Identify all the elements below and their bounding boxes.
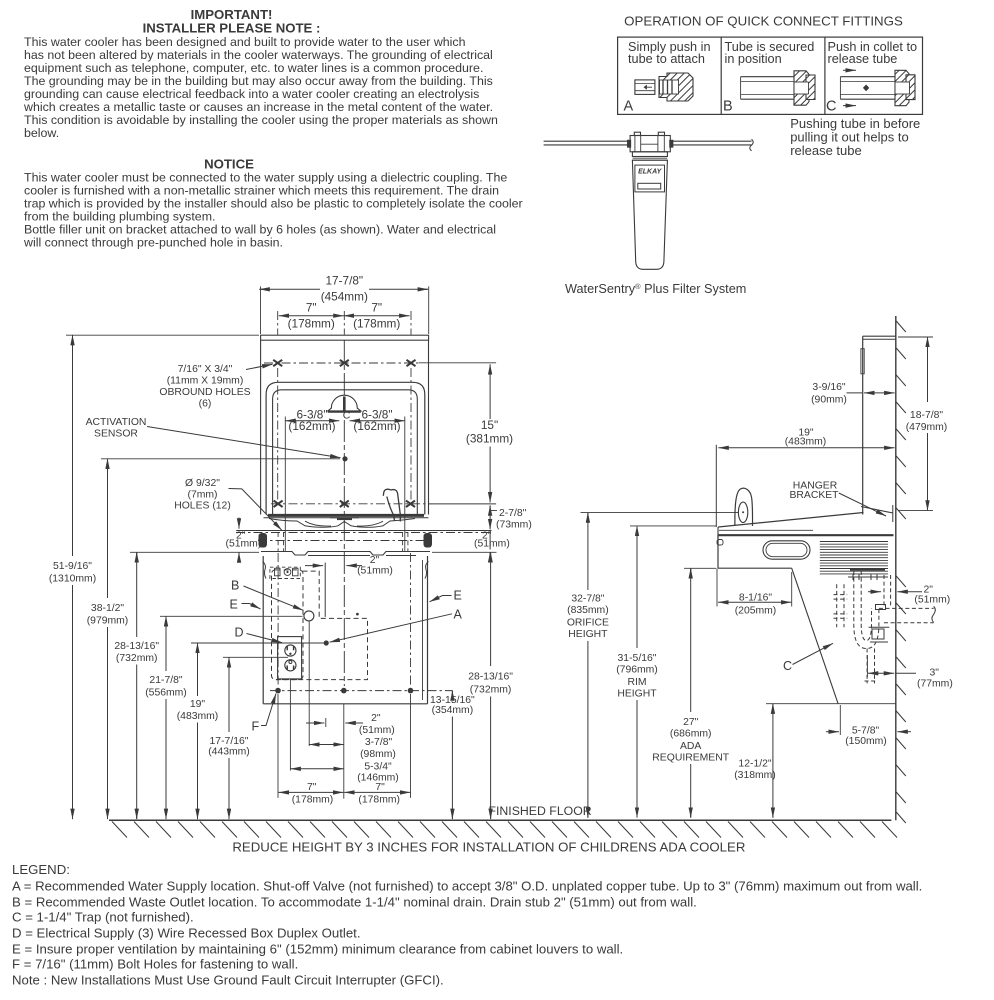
dim 3-7/8 xyxy=(360,737,396,760)
bezel inner rounded xyxy=(273,390,418,515)
dim 32-7/8 orifice height xyxy=(567,512,609,818)
svg-text:trap which is provided by the: trap which is provided by the installer … xyxy=(24,197,523,211)
spout arch xyxy=(328,395,361,412)
svg-text:(686mm): (686mm) xyxy=(670,729,712,740)
receptor dash-dot rows xyxy=(236,532,490,534)
drain stub dashed xyxy=(865,649,878,684)
svg-text:(98mm): (98mm) xyxy=(360,749,396,760)
leader hanger bracket xyxy=(839,493,886,516)
ext rim xyxy=(630,525,716,527)
svg-text:in position: in position xyxy=(725,52,782,66)
ext verticals below cabinet xyxy=(278,622,411,799)
label B xyxy=(231,579,239,593)
dim 28-13/16 left xyxy=(114,552,159,819)
svg-text:NOTICE: NOTICE xyxy=(204,157,254,172)
svg-text:Note : New Installations Must: Note : New Installations Must Use Ground… xyxy=(12,973,444,988)
svg-text:(479mm): (479mm) xyxy=(906,422,948,433)
ext 28-13/16 right xyxy=(432,551,497,553)
outlet zone dashed box xyxy=(272,570,304,680)
fitting illustration C xyxy=(840,70,915,105)
C centerline symbol xyxy=(343,410,351,422)
hole column centerlines xyxy=(278,311,411,500)
dim 19 side xyxy=(785,428,827,448)
panel right edge xyxy=(428,340,430,514)
svg-text:F: F xyxy=(252,720,260,734)
leader C side xyxy=(793,643,834,664)
svg-text:28-13/16": 28-13/16" xyxy=(114,641,159,652)
dim 15 arrows xyxy=(489,364,491,502)
supply collars xyxy=(834,595,848,619)
label F xyxy=(252,720,260,734)
svg-text:has not been altered by materi: has not been altered by materials in the… xyxy=(24,48,493,62)
dash-dot hole row2 line xyxy=(271,503,429,505)
activation sensor text xyxy=(86,417,147,440)
svg-text:38-1/2": 38-1/2" xyxy=(91,603,124,614)
cooler top side xyxy=(718,530,894,535)
svg-text:7": 7" xyxy=(371,300,382,314)
svg-text:E = Insure proper ventilation: E = Insure proper ventilation by maintai… xyxy=(12,942,623,957)
cabinet corner curls xyxy=(263,562,429,579)
leader D xyxy=(247,634,283,643)
leader holes 9/32 xyxy=(229,489,282,531)
svg-text:(178mm): (178mm) xyxy=(288,317,335,331)
svg-text:(77mm): (77mm) xyxy=(917,679,953,690)
filter collar xyxy=(632,152,667,160)
svg-text:(354mm): (354mm) xyxy=(432,705,474,716)
svg-text:(178mm): (178mm) xyxy=(353,317,400,331)
svg-text:SENSOR: SENSOR xyxy=(94,429,138,440)
floor line xyxy=(109,819,891,821)
dim 5-3/4 xyxy=(357,761,399,783)
centerline vertical xyxy=(343,311,345,335)
ext 51-9/16 top xyxy=(66,334,259,336)
svg-text:RIM: RIM xyxy=(627,677,646,688)
svg-text:ACTIVATION: ACTIVATION xyxy=(86,417,147,428)
leader obround holes xyxy=(246,364,273,369)
clearance solid vline xyxy=(324,563,326,617)
svg-text:(556mm): (556mm) xyxy=(145,687,187,698)
svg-text:C = 1-1/4" Trap (not furnished: C = 1-1/4" Trap (not furnished). xyxy=(12,910,194,925)
svg-text:(483mm): (483mm) xyxy=(785,437,827,448)
dim 2 inch cabinet xyxy=(357,555,393,577)
ext 18-7/8 xyxy=(898,337,933,510)
holes row2 xyxy=(274,501,415,507)
svg-text:from the building plumbing sys: from the building plumbing system. xyxy=(24,210,215,224)
svg-text:2-7/8": 2-7/8" xyxy=(499,508,527,519)
svg-text:REQUIREMENT: REQUIREMENT xyxy=(652,753,729,764)
svg-text:27": 27" xyxy=(683,717,699,728)
hanger bracket text xyxy=(789,481,839,502)
leader B xyxy=(244,586,304,610)
svg-text:(732mm): (732mm) xyxy=(470,685,512,696)
dim 21-7/8 xyxy=(145,616,187,819)
svg-text:This water cooler has been des: This water cooler has been designed and … xyxy=(24,35,466,49)
svg-text:Ø 9/32": Ø 9/32" xyxy=(185,478,220,489)
svg-text:will connect through pre-punch: will connect through pre-punched hole in… xyxy=(23,236,283,250)
svg-text:REDUCE HEIGHT BY 3 INCHES FOR: REDUCE HEIGHT BY 3 INCHES FOR INSTALLATI… xyxy=(232,840,745,855)
caption WaterSentry Plus Filter System xyxy=(565,282,746,296)
finished floor text xyxy=(489,804,592,818)
basin front edge side xyxy=(717,527,723,545)
bottom holes row3 xyxy=(275,688,413,694)
svg-text:21-7/8": 21-7/8" xyxy=(149,675,182,686)
svg-text:FINISHED FLOOR: FINISHED FLOOR xyxy=(489,804,592,818)
svg-text:2": 2" xyxy=(370,555,380,566)
leader A xyxy=(330,614,453,642)
dim 27 ada xyxy=(652,568,729,818)
svg-text:(51mm): (51mm) xyxy=(357,566,393,577)
cell A text xyxy=(624,40,711,115)
dim 2 inch right xyxy=(474,531,510,550)
paragraph installer note xyxy=(23,35,498,140)
dim 12-1/2 xyxy=(734,703,776,817)
svg-text:(318mm): (318mm) xyxy=(734,770,776,781)
svg-text:(205mm): (205mm) xyxy=(735,606,777,617)
svg-text:(483mm): (483mm) xyxy=(177,711,219,722)
wall line xyxy=(895,316,897,820)
dim 51-9/16 xyxy=(49,335,96,819)
dash-dot hole row1 line xyxy=(264,362,419,364)
basin drain ticks xyxy=(330,518,359,519)
filter head xyxy=(628,132,673,152)
ext 17-7/16 xyxy=(223,656,288,658)
svg-text:HOLES (12): HOLES (12) xyxy=(174,501,231,512)
svg-text:The grounding may be in the bu: The grounding may be in the building but… xyxy=(24,74,493,88)
svg-text:5-7/8": 5-7/8" xyxy=(852,726,880,737)
cabinet body xyxy=(263,556,427,704)
svg-text:(7mm): (7mm) xyxy=(187,490,217,501)
drain through-wall dashed xyxy=(884,575,891,608)
label C side xyxy=(783,659,792,673)
svg-text:17-7/16": 17-7/16" xyxy=(210,736,249,747)
note reduce height xyxy=(232,840,745,855)
svg-text:This water cooler must be conn: This water cooler must be connected to t… xyxy=(24,171,507,185)
svg-text:(150mm): (150mm) xyxy=(845,736,887,747)
box quick connect fittings xyxy=(618,37,923,114)
trap dashed xyxy=(854,571,879,649)
louver grille xyxy=(820,542,888,574)
svg-text:31-5/16": 31-5/16" xyxy=(618,653,657,664)
supply riser dashed xyxy=(837,584,844,627)
svg-text:ORIFICE: ORIFICE xyxy=(567,618,609,629)
dim 3 inch stub xyxy=(917,668,953,690)
svg-text:(51mm): (51mm) xyxy=(474,539,510,550)
sensor bar side xyxy=(861,349,864,374)
svg-text:(11mm X 19mm): (11mm X 19mm) xyxy=(167,376,244,387)
wall plate band xyxy=(261,335,429,340)
svg-text:cooler is furnished with a non: cooler is furnished with a non-metallic … xyxy=(24,184,499,198)
svg-text:C: C xyxy=(343,410,351,422)
label A xyxy=(454,608,463,622)
label E right xyxy=(454,589,462,603)
bubbler side xyxy=(735,488,753,526)
ext orifice xyxy=(581,512,740,514)
dim 28-13/16 right xyxy=(468,552,513,819)
svg-text:(979mm): (979mm) xyxy=(87,616,129,627)
compressor dashed box xyxy=(270,567,300,578)
receptor top line xyxy=(236,530,491,532)
drain flange xyxy=(848,570,888,580)
svg-text:B = Recommended Waste Outlet l: B = Recommended Waste Outlet location. T… xyxy=(12,895,697,910)
svg-text:(381mm): (381mm) xyxy=(466,432,513,446)
ext ada xyxy=(684,567,716,569)
stray dot xyxy=(356,613,359,616)
svg-text:ELKAY: ELKAY xyxy=(638,169,663,176)
svg-text:51-9/16": 51-9/16" xyxy=(53,561,92,572)
svg-text:F = 7/16" (11mm) Bolt Holes fo: F = 7/16" (11mm) Bolt Holes for fastenin… xyxy=(12,957,298,972)
svg-text:INSTALLER PLEASE NOTE :: INSTALLER PLEASE NOTE : xyxy=(143,20,321,35)
leader F xyxy=(261,694,276,726)
duplex outlet lower xyxy=(285,660,296,671)
svg-text:7": 7" xyxy=(306,300,317,314)
svg-text:3": 3" xyxy=(930,668,940,679)
legend block xyxy=(12,862,922,988)
svg-text:5-3/4": 5-3/4" xyxy=(364,761,392,772)
svg-text:release tube: release tube xyxy=(828,52,898,66)
fitting illustration A xyxy=(635,73,693,101)
basin slope side xyxy=(718,505,893,527)
bezel outer rounded xyxy=(266,382,425,514)
obround holes row1 xyxy=(273,360,415,366)
dim 6-3/8 right xyxy=(350,407,405,433)
svg-text:(6): (6) xyxy=(199,399,212,410)
svg-text:15": 15" xyxy=(481,418,498,432)
duplex outlet upper xyxy=(285,645,296,656)
svg-text:grounding can cause electrical: grounding can cause electrical feedback … xyxy=(24,87,479,101)
dim 7 inch left xyxy=(279,300,344,330)
dim 2 inch stub xyxy=(914,585,950,606)
ext 21-7/8 xyxy=(160,615,303,617)
ext 8-1/16 xyxy=(717,568,792,606)
dim 3-9/16 xyxy=(811,382,847,406)
svg-text:ADA: ADA xyxy=(680,741,701,752)
ext 12-1/2 xyxy=(766,703,896,705)
dim 5-7/8 xyxy=(845,726,887,748)
label E left xyxy=(230,598,238,612)
receptor end caps xyxy=(259,533,268,548)
svg-text:(51mm): (51mm) xyxy=(914,595,950,606)
svg-text:D: D xyxy=(235,626,244,640)
svg-text:12-1/2": 12-1/2" xyxy=(738,759,771,770)
svg-text:OPERATION OF QUICK CONNECT FIT: OPERATION OF QUICK CONNECT FITTINGS xyxy=(624,14,903,29)
ext lines 6-3/8 xyxy=(284,417,286,551)
heading IMPORTANT INSTALLER PLEASE NOTE xyxy=(143,7,321,35)
dim 2-7/8 xyxy=(496,508,532,531)
louver oval xyxy=(763,541,810,559)
svg-text:19": 19" xyxy=(190,699,206,710)
svg-text:(51mm): (51mm) xyxy=(359,725,395,736)
svg-text:OBROUND HOLES: OBROUND HOLES xyxy=(159,387,250,398)
panel left edge xyxy=(260,340,262,514)
svg-text:BRACKET: BRACKET xyxy=(789,490,839,501)
dim 8-1/16 xyxy=(735,593,777,617)
filter body xyxy=(632,160,667,269)
label D xyxy=(235,626,244,640)
svg-text:32-7/8": 32-7/8" xyxy=(571,594,604,605)
dash-dot row3 xyxy=(270,690,452,692)
svg-text:release tube: release tube xyxy=(790,143,862,158)
dim 7 inch right xyxy=(344,300,410,330)
floor hatching xyxy=(112,822,897,838)
svg-text:(178mm): (178mm) xyxy=(292,795,334,806)
svg-text:E: E xyxy=(454,589,462,603)
label holes 9/32 xyxy=(174,478,231,512)
dim 7 inch bottom left xyxy=(292,782,334,806)
svg-text:B: B xyxy=(723,99,733,115)
activation sensor dot xyxy=(342,456,347,461)
wall hatching xyxy=(896,321,906,823)
svg-text:below.: below. xyxy=(24,126,59,140)
svg-text:E: E xyxy=(230,598,238,612)
svg-text:Bottle filler unit on bracket: Bottle filler unit on bracket attached t… xyxy=(24,223,496,237)
svg-text:which creates a metallic taste: which creates a metallic taste or causes… xyxy=(23,100,493,114)
dim 17-7/16 xyxy=(208,657,250,819)
water line left xyxy=(544,141,630,145)
label obround holes xyxy=(159,364,250,410)
svg-text:C: C xyxy=(826,99,836,115)
dim 18-7/8 xyxy=(906,337,948,511)
hole column dashdots cabinet xyxy=(278,553,410,687)
dim 15 inch xyxy=(466,367,513,501)
svg-text:28-13/16": 28-13/16" xyxy=(468,672,513,683)
dim 7 inch bottom right xyxy=(358,782,400,806)
svg-text:D = Electrical Supply (3) Wire: D = Electrical Supply (3) Wire Recessed … xyxy=(12,926,361,941)
svg-text:A: A xyxy=(624,99,634,115)
title OPERATION OF QUICK CONNECT FITTINGS xyxy=(624,14,903,29)
dim 19 xyxy=(177,643,219,819)
dim 13-15/16 xyxy=(430,690,475,819)
activation sensor leader xyxy=(147,427,341,458)
fitting illustration B xyxy=(741,71,815,105)
note pushing tube xyxy=(790,116,920,158)
svg-text:(73mm): (73mm) xyxy=(496,520,532,531)
svg-text:7/16" X 3/4": 7/16" X 3/4" xyxy=(178,364,233,375)
svg-text:7": 7" xyxy=(375,782,385,793)
dim 31-5/16 rim height xyxy=(616,526,658,818)
svg-text:A: A xyxy=(454,608,463,622)
leader E left xyxy=(242,604,261,610)
paragraph notice xyxy=(23,171,523,250)
receptor dashed verticals xyxy=(278,532,408,551)
water line right xyxy=(671,139,753,151)
svg-text:tube to attach: tube to attach xyxy=(628,52,705,66)
svg-text:3-7/8": 3-7/8" xyxy=(365,737,393,748)
svg-text:C: C xyxy=(783,659,792,673)
waste pipe dashed xyxy=(879,606,935,622)
cabinet bottom side xyxy=(718,535,792,568)
svg-text:(796mm): (796mm) xyxy=(616,665,658,676)
svg-text:LEGEND:: LEGEND: xyxy=(12,862,70,877)
svg-text:equipment such as telephone, c: equipment such as telephone, computer, e… xyxy=(24,61,483,75)
dim 2 inch below xyxy=(359,713,395,736)
leader E right xyxy=(430,596,452,602)
cabinet diagonal bottom xyxy=(792,568,838,704)
svg-text:(51mm): (51mm) xyxy=(226,539,262,550)
svg-text:(90mm): (90mm) xyxy=(811,395,847,406)
dim 17-7/8 (454mm) xyxy=(259,274,428,335)
ext 19 side xyxy=(715,445,717,527)
dim 38-1/2 xyxy=(87,459,129,820)
svg-text:A = Recommended Water Supply l: A = Recommended Water Supply location. S… xyxy=(12,879,922,894)
svg-text:3-9/16": 3-9/16" xyxy=(812,382,845,393)
svg-text:WaterSentry® Plus Filter Syste: WaterSentry® Plus Filter System xyxy=(565,282,746,296)
filler panel side xyxy=(863,336,896,514)
svg-text:(443mm): (443mm) xyxy=(208,747,250,758)
cabinet top contour xyxy=(261,552,430,556)
svg-text:(835mm): (835mm) xyxy=(567,605,609,616)
A node xyxy=(324,640,329,645)
dim 2 inch left xyxy=(226,531,262,550)
svg-text:2": 2" xyxy=(371,713,381,724)
bubbler front xyxy=(383,489,400,521)
basin scallops xyxy=(269,519,415,528)
svg-text:(454mm): (454mm) xyxy=(321,289,368,303)
svg-text:This condition is avoidable by: This condition is avoidable by installin… xyxy=(24,113,498,127)
basin rim front xyxy=(264,515,429,517)
svg-text:HEIGHT: HEIGHT xyxy=(617,689,657,700)
ext 38-1/2 xyxy=(101,458,340,460)
clearance dashed outline xyxy=(276,571,368,680)
heading NOTICE xyxy=(204,157,254,172)
svg-text:(732mm): (732mm) xyxy=(116,653,158,664)
cell B text xyxy=(723,40,814,115)
svg-text:HEIGHT: HEIGHT xyxy=(568,629,608,640)
svg-text:(1310mm): (1310mm) xyxy=(49,574,96,585)
waste elbow fittings xyxy=(869,605,890,643)
svg-text:B: B xyxy=(231,579,239,593)
ext 28-13/16 left xyxy=(130,551,259,553)
ext 19 xyxy=(191,642,324,644)
svg-text:17-7/8": 17-7/8" xyxy=(325,274,363,288)
svg-text:18-7/8": 18-7/8" xyxy=(910,410,943,421)
cell C text xyxy=(826,40,917,115)
filter label ELKAY xyxy=(635,165,665,192)
dim 6-3/8 left xyxy=(285,407,339,433)
B waste circle xyxy=(304,611,314,621)
svg-text:7": 7" xyxy=(307,782,317,793)
svg-text:(178mm): (178mm) xyxy=(358,795,400,806)
outlet box xyxy=(278,637,302,679)
